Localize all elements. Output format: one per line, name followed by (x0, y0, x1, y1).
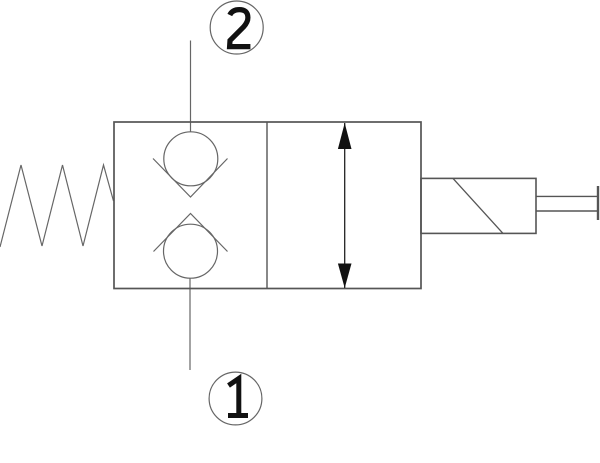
label 1 (228, 379, 248, 416)
check ball top (164, 132, 218, 186)
wire port 2 vertical line (190, 41, 192, 134)
solenoid diagonal (453, 178, 503, 233)
wire port 1 vertical line (189, 278, 191, 370)
divider wall (266, 122, 268, 289)
label 2 (230, 10, 251, 47)
arrow shaft (344, 123, 346, 288)
spring (0, 165, 114, 247)
node 1 circle (209, 372, 262, 425)
arrowhead up (338, 123, 352, 149)
valve seat top (153, 159, 228, 198)
arrowhead down (338, 264, 352, 289)
terminal bar (597, 186, 599, 220)
wire lead top (536, 195, 598, 197)
wire lead bottom (536, 210, 598, 212)
solenoid box (421, 178, 536, 233)
valve body box (114, 122, 421, 289)
node 2 circle (210, 1, 263, 54)
valve seat bottom (154, 214, 228, 252)
check ball bottom (164, 224, 218, 278)
